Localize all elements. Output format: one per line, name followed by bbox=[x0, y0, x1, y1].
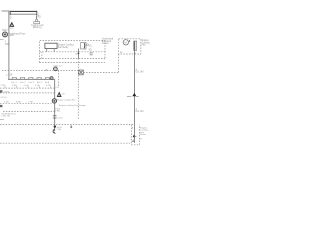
svg-text:S204 Jct: S204 Jct bbox=[53, 64, 62, 67]
svg-text:DG 140: DG 140 bbox=[136, 111, 145, 113]
row end component bbox=[50, 77, 53, 80]
dashed row 5 full width bbox=[0, 124, 135, 126]
svg-text:Center: Center bbox=[102, 42, 109, 45]
svg-text:Engine Cooling Fan: Engine Cooling Fan bbox=[57, 100, 76, 102]
svg-text:6 PK: 6 PK bbox=[46, 85, 51, 87]
left edge tick bbox=[0, 118, 4, 120]
wire: right main drop bbox=[134, 50, 136, 143]
wire: drop inside box bbox=[77, 49, 79, 59]
fuse row labels bbox=[11, 81, 49, 84]
dashed wire to right bbox=[83, 71, 118, 73]
warning triangle 1 bbox=[9, 22, 14, 30]
svg-text:2 RD: 2 RD bbox=[1, 85, 6, 87]
junction dot on right wire bbox=[133, 135, 135, 137]
battery positive bus bar bbox=[10, 11, 37, 15]
svg-text:30: 30 bbox=[89, 45, 92, 47]
splice S bbox=[54, 67, 58, 71]
dashed row 2 bbox=[0, 92, 55, 94]
svg-text:DG 140: DG 140 bbox=[136, 72, 145, 74]
svg-text:4 OG: 4 OG bbox=[24, 85, 29, 87]
fusible link bbox=[34, 19, 40, 23]
wire: drop from bus right end bbox=[36, 15, 38, 19]
svg-text:Fan: Fan bbox=[142, 45, 147, 47]
pin tick bbox=[128, 40, 131, 42]
resistor block bbox=[134, 41, 137, 50]
svg-text:M: M bbox=[124, 41, 127, 45]
left edge mark 2 bbox=[0, 105, 2, 107]
svg-text:A/C 1: A/C 1 bbox=[37, 81, 43, 84]
splice S202 bbox=[3, 32, 8, 37]
warning triangle 2 bbox=[57, 92, 62, 97]
svg-text:(Battery): (Battery) bbox=[33, 26, 42, 29]
tick below dashed 5 bbox=[70, 125, 72, 129]
svg-text:F: F bbox=[6, 75, 8, 77]
svg-text:2 BK: 2 BK bbox=[57, 129, 62, 131]
svg-text:30 A: 30 A bbox=[45, 81, 50, 84]
dashed wire 24 left bbox=[2, 69, 53, 71]
right module dashed box bbox=[119, 39, 141, 54]
svg-text:3 RD: 3 RD bbox=[12, 85, 17, 87]
svg-text:5: 5 bbox=[75, 53, 77, 56]
left edge mark 1 bbox=[0, 90, 2, 92]
svg-text:Fan Relay: Fan Relay bbox=[58, 47, 69, 49]
inline connector box bbox=[79, 70, 84, 75]
svg-text:90: 90 bbox=[89, 47, 92, 51]
tick at left edge bbox=[0, 38, 4, 40]
dashed vertical below right box bbox=[118, 54, 120, 72]
dashed row 1 bbox=[0, 87, 55, 89]
junction dot bbox=[78, 53, 80, 55]
svg-text:Fan 2: Fan 2 bbox=[20, 82, 26, 84]
fuse row bus bbox=[8, 78, 55, 80]
svg-text:2 RD: 2 RD bbox=[55, 111, 60, 113]
svg-text:C100: C100 bbox=[57, 118, 63, 120]
off page arrow on right wire bbox=[127, 93, 139, 96]
underhood fuse block dashed box bbox=[40, 41, 106, 63]
text above dashed 3 bbox=[4, 102, 34, 104]
breaker label bbox=[87, 44, 89, 46]
svg-text:90: 90 bbox=[62, 94, 65, 96]
dashed row 6 full width bbox=[0, 142, 132, 144]
svg-text:Block: Block bbox=[8, 35, 14, 37]
svg-text:Motor: Motor bbox=[140, 133, 146, 136]
wire: top-left L feed bbox=[2, 11, 9, 79]
circuit breaker bbox=[81, 42, 86, 49]
pcm connector dashed box bbox=[132, 125, 140, 145]
svg-text:Fan 1: Fan 1 bbox=[11, 82, 17, 84]
svg-text:86: 86 bbox=[120, 52, 123, 54]
drops below row bbox=[5, 86, 50, 88]
svg-text:5 YE: 5 YE bbox=[35, 85, 40, 87]
pin tick bbox=[132, 140, 135, 142]
svg-text:24 OG: 24 OG bbox=[1, 97, 8, 99]
svg-text:2: 2 bbox=[10, 16, 12, 20]
splice circle on center wire bbox=[52, 99, 56, 103]
fan motor circle bbox=[123, 40, 128, 45]
svg-text:S117: S117 bbox=[9, 28, 14, 30]
svg-text:B: B bbox=[140, 139, 142, 141]
connector dot on center wire bbox=[54, 125, 56, 127]
svg-text:2 R: 2 R bbox=[55, 87, 59, 89]
svg-text:A: A bbox=[132, 126, 134, 129]
text row above dashed 1 bbox=[1, 85, 52, 87]
dashed row 3 bbox=[0, 102, 52, 104]
mini fuse bbox=[90, 52, 93, 55]
dashed vertical right of row bbox=[58, 70, 60, 86]
dashed vertical mid bbox=[77, 58, 79, 119]
svg-text:2 RD 140: 2 RD 140 bbox=[1, 116, 11, 118]
svg-text:RD: RD bbox=[38, 16, 42, 18]
svg-text:Engine Cooling Fan Jumper: Engine Cooling Fan Jumper bbox=[59, 104, 86, 107]
maxifuse pins bbox=[46, 49, 48, 52]
wire: center drop bbox=[54, 79, 56, 131]
svg-text:Fan 3: Fan 3 bbox=[29, 82, 35, 84]
svg-text:24: 24 bbox=[9, 72, 13, 76]
maxifuse box bbox=[45, 43, 57, 48]
hook connector at wire end bbox=[53, 130, 55, 134]
svg-text:RD: RD bbox=[5, 44, 9, 46]
dashed row 4 bbox=[3, 111, 55, 113]
connector on center wire bbox=[53, 116, 57, 118]
fuse row elements bbox=[12, 78, 49, 80]
